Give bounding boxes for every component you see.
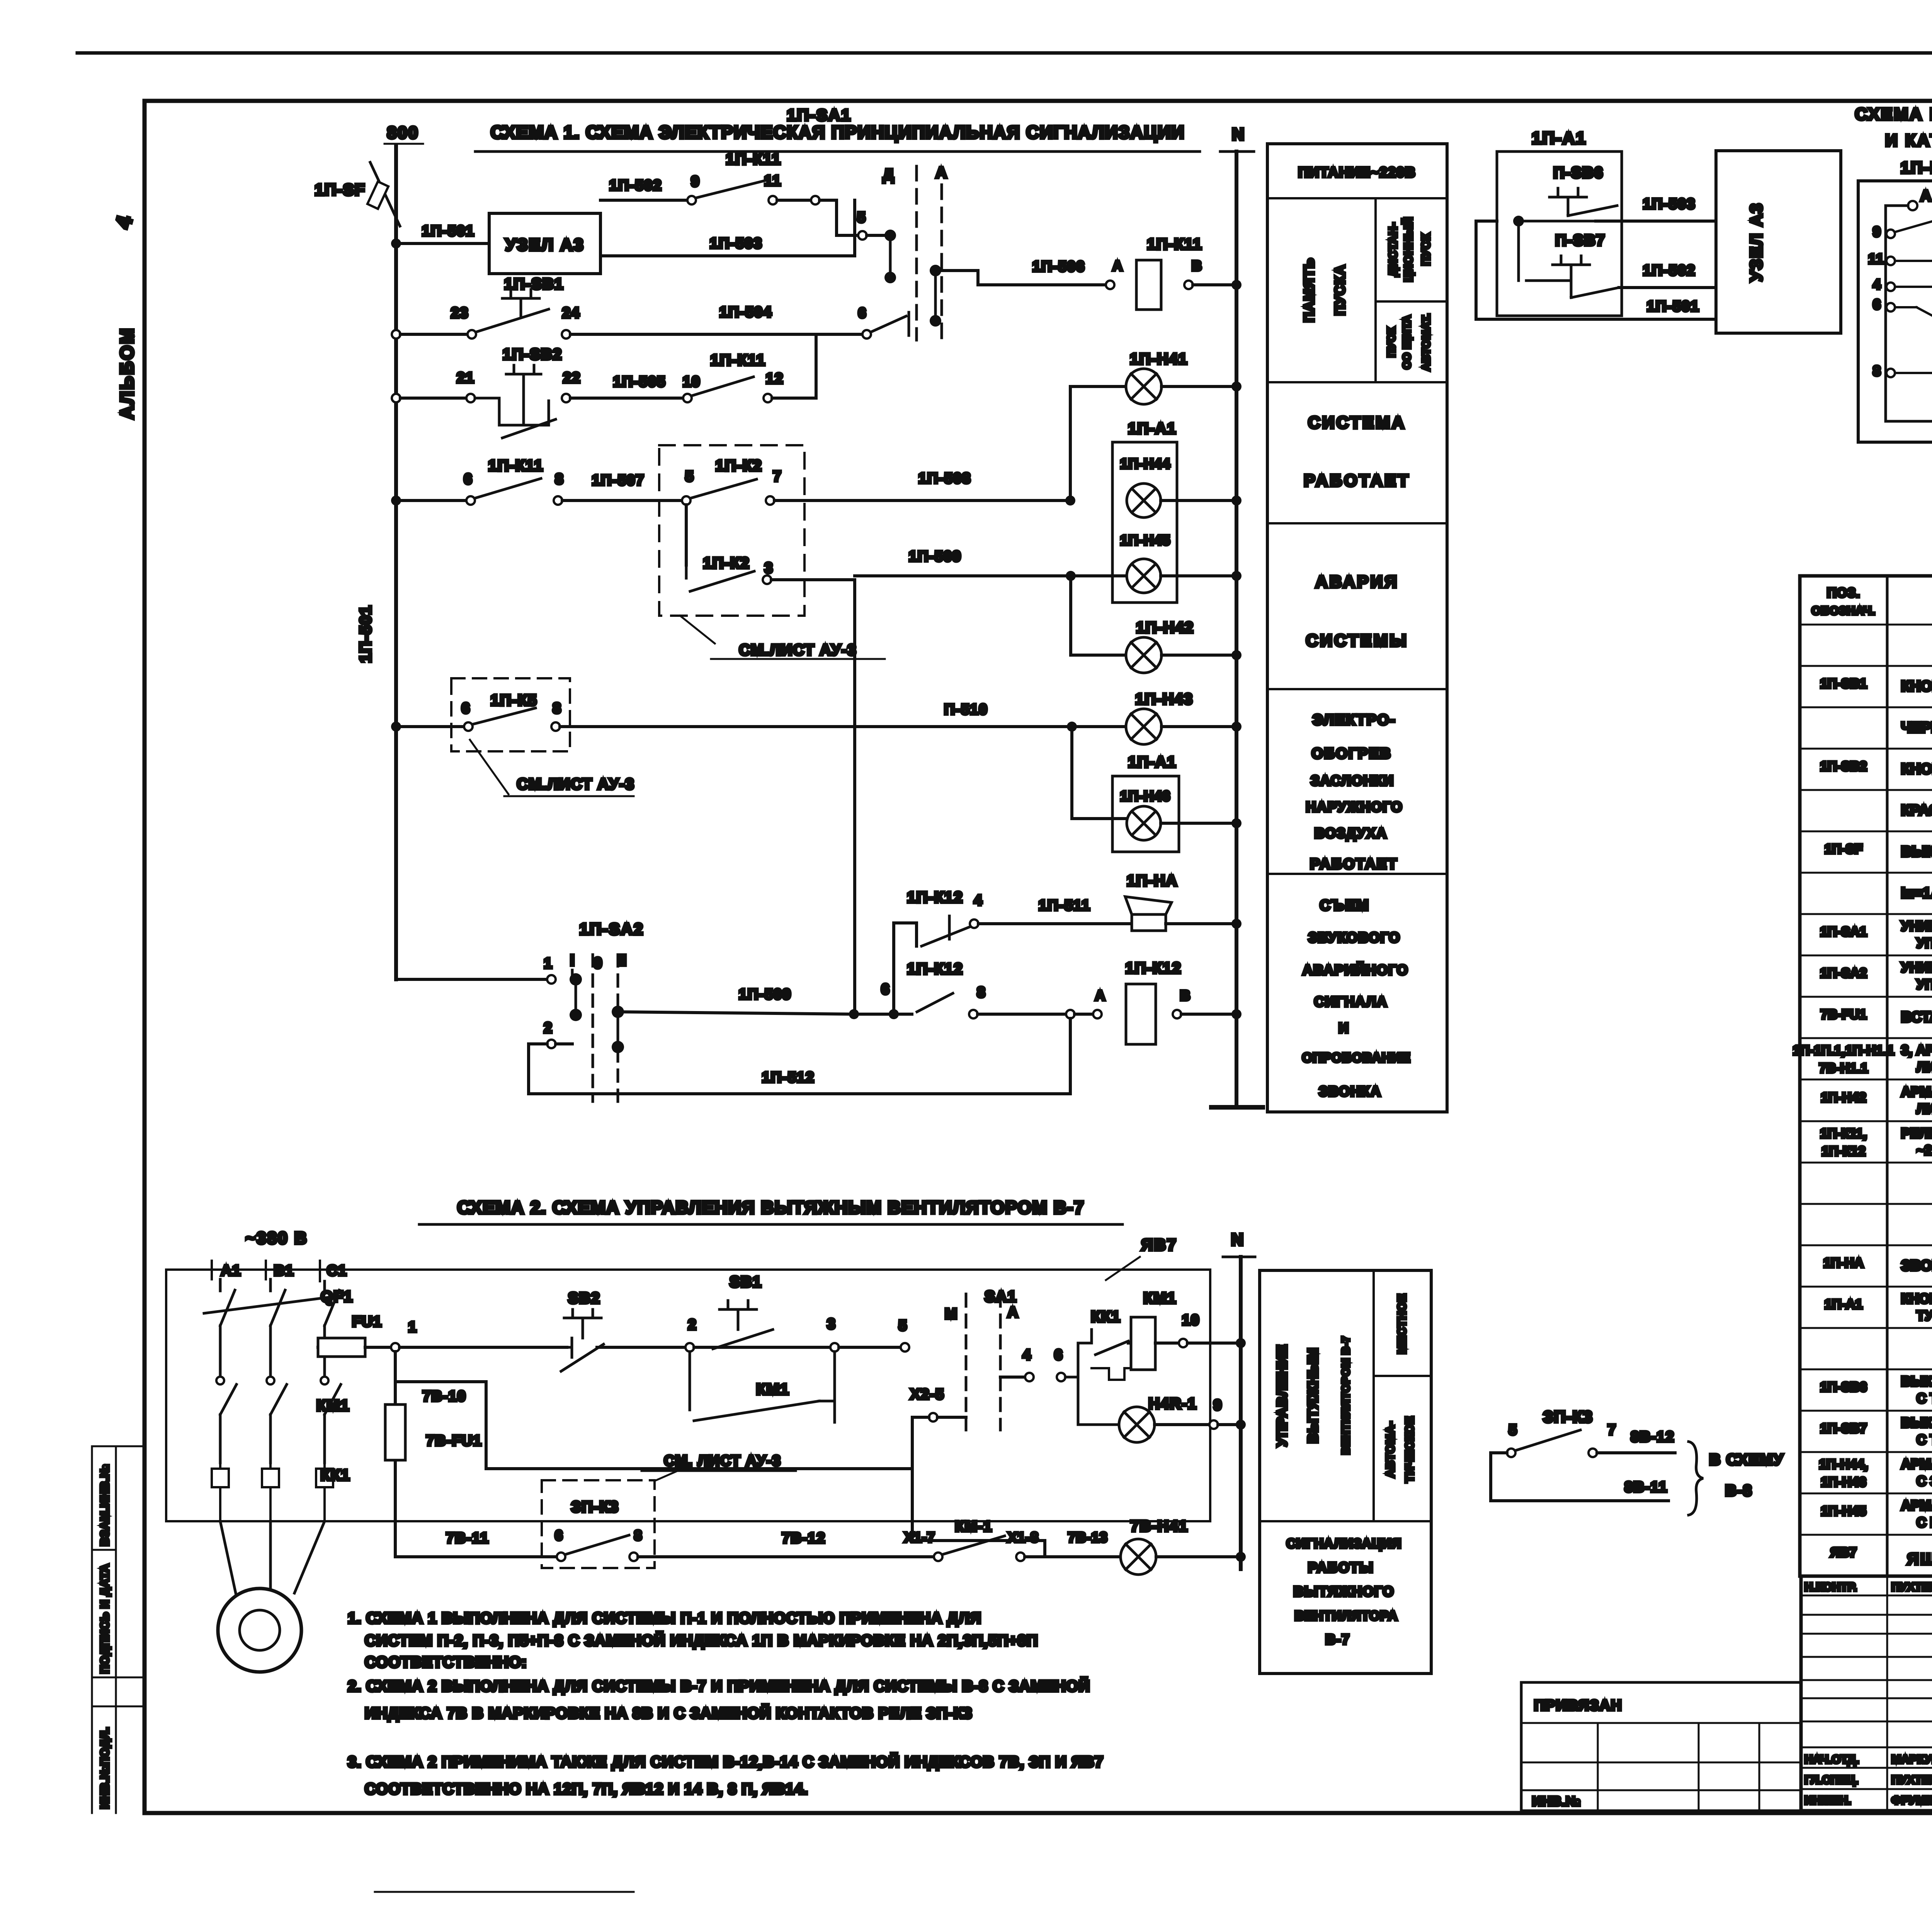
svg-text:УЗЕЛ А3: УЗЕЛ А3 [1747, 203, 1766, 282]
svg-text:ЗВОНКА: ЗВОНКА [1319, 1083, 1381, 1099]
svg-text:ВЫКЛЮЧАТЕЛЬ АВТОМАТИЧЕСКИЙ А63: ВЫКЛЮЧАТЕЛЬ АВТОМАТИЧЕСКИЙ А63-МУЗ [1901, 843, 1932, 860]
svg-text:7В-13: 7В-13 [1068, 1529, 1107, 1545]
svg-text:1П-505: 1П-505 [613, 374, 666, 390]
svg-text:10: 10 [1182, 1312, 1200, 1328]
svg-text:7В-Н1.1: 7В-Н1.1 [1819, 1061, 1868, 1076]
svg-text:ЭЛЕКТРО-: ЭЛЕКТРО- [1313, 712, 1396, 728]
svg-text:УП-5312 с 86 ТУ16-524: УП-5312 с 86 ТУ16-524.074-75 [1917, 936, 1932, 951]
wire 1P-501 to uzel A3 [391, 238, 401, 249]
svg-text:Iн=1А, ОТСЕЧКА Iотс.=2Iн. ТУ: Iн=1А, ОТСЕЧКА Iотс.=2Iн. ТУ16-522.110-7… [1901, 885, 1932, 901]
svg-text:ВСТАВКА ПЛАВКАЯ ВП25-1,1А А: ВСТАВКА ПЛАВКАЯ ВП25-1,1А АГО.481.304ТУ [1901, 1009, 1932, 1025]
svg-text:СИГНАЛА: СИГНАЛА [1314, 994, 1388, 1010]
svg-text:1. СХЕМА 1 ВЫПОЛНЕНА ДЛЯ СИС: 1. СХЕМА 1 ВЫПОЛНЕНА ДЛЯ СИСТЕМЫ П-1 И П… [348, 1610, 981, 1627]
svg-text:ЗВУКОВОГО: ЗВУКОВОГО [1308, 930, 1401, 945]
svg-text:А: А [1920, 187, 1932, 204]
relay contact 1P-K5 row with dashed box, wire P-510 [391, 722, 401, 732]
wire 1P-512 return loop [529, 1044, 1070, 1094]
svg-text:А: А [1112, 258, 1123, 274]
small stamp table privyazan [1521, 1682, 1801, 1811]
svg-text:6: 6 [555, 1527, 563, 1543]
svg-text:SВ1: SВ1 [730, 1273, 762, 1290]
svg-text:ПУСК: ПУСК [1420, 233, 1432, 266]
svg-text:1П-SВ1: 1П-SВ1 [504, 276, 564, 293]
svg-text:7В-Н41: 7В-Н41 [1130, 1518, 1188, 1535]
svg-text:1П-SВ1: 1П-SВ1 [1820, 676, 1867, 691]
svg-text:КНОПКА УПРАВЛЕНИЯ КЕ-0113 исп.: КНОПКА УПРАВЛЕНИЯ КЕ-0113 исп.1. ТОЛКАТЕ… [1901, 678, 1932, 695]
relay pinout box [1858, 181, 1932, 442]
svg-text:2. СХЕМА 2 ВЫПОЛНЕНА ДЛЯ СИСТЕ: 2. СХЕМА 2 ВЫПОЛНЕНА ДЛЯ СИСТЕМЫ В-7 И П… [348, 1677, 1090, 1695]
svg-text:1П-508: 1П-508 [918, 470, 971, 487]
svg-text:2: 2 [544, 1020, 553, 1036]
svg-text:4: 4 [1022, 1347, 1031, 1363]
relay contact 1P-K12 4 (NC) and horn 1P-NA [894, 923, 917, 1014]
svg-text:7В-12: 7В-12 [782, 1530, 826, 1546]
svg-text:ПУХТЕЛЬ: ПУХТЕЛЬ [1891, 1581, 1932, 1594]
svg-text:1П-Н45: 1П-Н45 [1120, 532, 1170, 548]
svg-text:СМ.ЛИСТ АУ-3: СМ.ЛИСТ АУ-3 [517, 776, 635, 793]
svg-text:ПУХТЕЛЬ: ПУХТЕЛЬ [1891, 1774, 1932, 1786]
svg-text:FU1: FU1 [352, 1314, 382, 1330]
svg-text:ТУ16-526.333-83 С СЛЕДУЮЩИМИ: ТУ16-526.333-83 С СЛЕДУЮЩИМИ [1917, 1308, 1932, 1323]
svg-text:И КАТУШЕК РЕЛЕ: И КАТУШЕК РЕЛЕ [1885, 131, 1932, 150]
svg-text:ЗП-К3: ЗП-К3 [571, 1498, 619, 1515]
svg-text:1П-К12: 1П-К12 [907, 960, 963, 977]
svg-text:ЗАСЛОНКИ: ЗАСЛОНКИ [1311, 773, 1394, 788]
svg-text:КНОПОЧНЫЙ ПОСТ УПРАВЛЕНИЯ ПКУ1: КНОПОЧНЫЙ ПОСТ УПРАВЛЕНИЯ ПКУ15-21.311-5… [1901, 1291, 1932, 1306]
annotation column schematic 1 [1267, 144, 1447, 1112]
svg-text:1П-SF: 1П-SF [315, 180, 365, 199]
ground bar at N bus bottom [1211, 1105, 1263, 1110]
pushbutton 1P-SB1 row, contacts 23-24 [392, 330, 400, 339]
svg-text:1П-SA1: 1П-SA1 [787, 106, 851, 124]
svg-text:7В-FU1: 7В-FU1 [1820, 1007, 1866, 1022]
svg-text:ВЫТЯЖНОГО: ВЫТЯЖНОГО [1293, 1583, 1394, 1599]
svg-text:КМ1: КМ1 [756, 1381, 789, 1398]
svg-text:~380 В: ~380 В [245, 1229, 308, 1248]
svg-text:И: И [1338, 1020, 1349, 1036]
svg-text:Д: Д [883, 166, 895, 183]
svg-text:2: 2 [688, 1317, 697, 1333]
svg-text:ЛИНЗА ЗЕЛЕНАЯ ТУ16-535.426-7: ЛИНЗА ЗЕЛЕНАЯ ТУ16-535.426-70 [1917, 1060, 1932, 1075]
svg-text:НАРУЖНОГО: НАРУЖНОГО [1306, 799, 1403, 815]
svg-text:8: 8 [553, 700, 561, 717]
svg-text:1П-1П.1,1П-Н1.1: 1П-1П.1,1П-Н1.1 [1793, 1043, 1894, 1058]
callout sm.list AU-3 for 3P-K3 [641, 1471, 796, 1480]
svg-text:АРМАТУРА СВЕТОСИГНАЛЬНАЯ СЕРИИ: АРМАТУРА СВЕТОСИГНАЛЬНАЯ СЕРИИ АС13 [1901, 1457, 1932, 1472]
box uzel A3 (schematic) [489, 213, 600, 274]
svg-text:ТИЧЕСКОЕ: ТИЧЕСКОЕ [1403, 1416, 1416, 1483]
svg-text:5: 5 [898, 1318, 907, 1334]
svg-text:СМ.ЛИСТ АУ-3: СМ.ЛИСТ АУ-3 [739, 642, 857, 659]
svg-text:СИСТЕМ П-2, П-3, П5÷П-8 С ЗАМЕ: СИСТЕМ П-2, П-3, П5÷П-8 С ЗАМЕНОЙ ИНДЕКС… [365, 1631, 1038, 1649]
callout sm.list AU-3 for 1P-K2 [680, 616, 885, 659]
svg-text:1П-512: 1П-512 [762, 1069, 815, 1086]
parts list table [1800, 576, 1932, 1576]
svg-text:АЛЬБОМ: АЛЬБОМ [117, 327, 138, 419]
control tap with fuse FU1 [320, 1342, 330, 1352]
svg-text:ЯВ7: ЯВ7 [1830, 1545, 1857, 1560]
svg-text:ЗП-К3: ЗП-К3 [1543, 1408, 1593, 1426]
svg-text:I: I [570, 952, 575, 969]
svg-text:СООТВЕТСТВЕННО НА 12П, 7П, Я: СООТВЕТСТВЕННО НА 12П, 7П, ЯВ12 И 14 В, … [365, 1781, 808, 1798]
svg-text:8: 8 [1873, 363, 1881, 379]
motor [220, 1521, 325, 1593]
pushbutton 1P-SB2 row, contacts 21-22, wire 1P-505, contact 1P-K11 10-12 [392, 394, 400, 402]
wire 1P-506 and relay coil 1P-K11 [935, 271, 1106, 285]
svg-text:ЯВ7: ЯВ7 [1141, 1236, 1177, 1254]
svg-text:ВЫКЛЮЧАТЕЛЬ КНОПОЧНЫЙ ТИПА КЕ: ВЫКЛЮЧАТЕЛЬ КНОПОЧНЫЙ ТИПА КЕ-011 [1901, 1374, 1932, 1389]
svg-text:ВЕНТИЛЯТОРОМ В-7: ВЕНТИЛЯТОРОМ В-7 [1340, 1336, 1352, 1455]
svg-text:1П-А1: 1П-А1 [1825, 1297, 1862, 1312]
svg-text:~220 В ТУ16-523.331-78: ~220 В ТУ16-523.331-78 [1917, 1143, 1932, 1158]
svg-text:1П-К11: 1П-К11 [726, 151, 781, 168]
svg-text:УНИВЕРСАЛЬНЫЙ ПЕРЕКЛЮЧАТЕЛЬ: УНИВЕРСАЛЬНЫЙ ПЕРЕКЛЮЧАТЕЛЬ [1901, 960, 1932, 975]
svg-text:N: N [1232, 125, 1245, 144]
svg-text:ВЫКЛЮЧАТЕЛЬ КНОПОЧНЫЙ ТИПА КЕ: ВЫКЛЮЧАТЕЛЬ КНОПОЧНЫЙ ТИПА КЕ-011 [1901, 1415, 1932, 1430]
svg-text:6: 6 [881, 981, 890, 998]
svg-text:ИНВ.№ПОДЛ.: ИНВ.№ПОДЛ. [99, 1727, 111, 1809]
svg-text:1П-К5: 1П-К5 [491, 692, 537, 709]
svg-text:21: 21 [457, 370, 474, 386]
box YaV7 (control cabinet) [166, 1270, 1210, 1521]
svg-text:ЧЕРНОГО ЦВЕТА, НАДПИСЬ-„ПУСК”: ЧЕРНОГО ЦВЕТА, НАДПИСЬ-„ПУСК” ТУ16-642.0… [1901, 720, 1932, 736]
svg-text:1П-К11, 1П-К12: 1П-К11, 1П-К12 [1901, 158, 1932, 177]
svg-text:22: 22 [563, 370, 581, 386]
svg-text:С КРАСНЫМ СВЕТОФИЛЬТРОМ ТУ16-5: С КРАСНЫМ СВЕТОФИЛЬТРОМ ТУ16-535.426-70 [1917, 1515, 1932, 1530]
svg-text:1П-Н42: 1П-Н42 [1821, 1090, 1866, 1105]
contacts 4 and 6, thermal contact KK1, coil KM1 [1000, 1376, 1025, 1379]
svg-text:12: 12 [766, 371, 784, 387]
svg-text:ПОДПИСЬ И ДАТА: ПОДПИСЬ И ДАТА [99, 1564, 111, 1674]
svg-text:9: 9 [1213, 1397, 1222, 1413]
svg-text:НАЧ.ОТД.: НАЧ.ОТД. [1804, 1753, 1859, 1766]
svg-text:ПУСКА: ПУСКА [1332, 264, 1348, 315]
svg-text:7: 7 [1607, 1422, 1616, 1438]
svg-text:1П-501: 1П-501 [1647, 298, 1700, 315]
svg-text:Х1-8: Х1-8 [1008, 1529, 1039, 1545]
svg-text:1: 1 [408, 1319, 417, 1335]
svg-text:11: 11 [764, 173, 781, 189]
svg-text:ОПРОБОВАНИЕ: ОПРОБОВАНИЕ [1302, 1050, 1411, 1065]
riser to 1P-512 [1069, 1018, 1072, 1094]
svg-text:А: А [936, 164, 948, 181]
svg-text:1П-506: 1П-506 [1032, 259, 1085, 275]
svg-text:1П-507: 1П-507 [592, 472, 645, 489]
svg-text:ПУСК: ПУСК [1385, 327, 1397, 358]
svg-text:1П-509: 1П-509 [909, 548, 962, 565]
svg-text:МЕСТНОЕ: МЕСТНОЕ [1396, 1294, 1408, 1354]
svg-text:1П-Н44: 1П-Н44 [1120, 456, 1170, 472]
relay contact 1P-K11 6-8 row, wire 1P-507 [391, 495, 401, 506]
svg-text:Н4R-1: Н4R-1 [1148, 1395, 1197, 1412]
svg-text:В: В [1180, 987, 1191, 1003]
svg-text:6: 6 [464, 471, 473, 487]
svg-text:Х1-7: Х1-7 [904, 1529, 935, 1545]
branch 7V-10 with fuse 7V-FU1 [394, 1352, 397, 1557]
svg-text:1П-SВ6: 1П-SВ6 [1820, 1380, 1867, 1394]
svg-text:СИСТЕМА: СИСТЕМА [1308, 413, 1406, 432]
svg-text:СМ. ЛИСТ АУ-3: СМ. ЛИСТ АУ-3 [664, 1453, 781, 1469]
svg-text:1П-К2: 1П-К2 [716, 457, 762, 474]
svg-text:УП-5311 А 225 ТУ16-524.: УП-5311 А 225 ТУ16-524.074-75 [1917, 977, 1932, 992]
svg-text:3, АРМАТУРА СВЕТОСИГНАЛЬНАЯ А: 3, АРМАТУРА СВЕТОСИГНАЛЬНАЯ АС-220 [1901, 1043, 1932, 1058]
svg-text:АРМАТУРА СВЕТОСИГНАЛЬНАЯ АС-2: АРМАТУРА СВЕТОСИГНАЛЬНАЯ АС-220. [1901, 1084, 1932, 1100]
svg-text:СХЕМА 1. СХЕМА ЭЛЕКТРИЧЕСКАЯ: СХЕМА 1. СХЕМА ЭЛЕКТРИЧЕСКАЯ ПРИНЦИПИАЛЬ… [491, 122, 1185, 142]
svg-text:1П-502: 1П-502 [609, 177, 662, 194]
svg-text:8В-11: 8В-11 [1624, 1479, 1667, 1495]
svg-text:1: 1 [544, 955, 553, 972]
svg-text:1П-К11: 1П-К11 [1147, 236, 1202, 253]
svg-text:800: 800 [387, 123, 419, 142]
svg-text:Н.КОНТР.: Н.КОНТР. [1804, 1581, 1857, 1594]
svg-text:ВЕНТИЛЯТОРА: ВЕНТИЛЯТОРА [1295, 1609, 1398, 1623]
svg-text:1П-502: 1П-502 [1643, 262, 1696, 279]
svg-text:СХЕМА ВЫВОДОВ КОНТАКТОВ: СХЕМА ВЫВОДОВ КОНТАКТОВ [1855, 105, 1932, 124]
svg-text:1П-SВ7: 1П-SВ7 [1820, 1421, 1867, 1436]
wires 1P-503 1P-502 1P-501 to uzel A3 [1596, 220, 1716, 223]
svg-text:1П-503: 1П-503 [1643, 196, 1696, 212]
svg-text:0: 0 [594, 955, 603, 972]
svg-text:ВЗАМ.ИНВ.№: ВЗАМ.ИНВ.№ [99, 1464, 111, 1546]
svg-text:В: В [1192, 258, 1202, 274]
svg-text:5: 5 [857, 209, 866, 226]
svg-text:4: 4 [974, 892, 983, 909]
svg-text:8В-12: 8В-12 [1631, 1429, 1675, 1445]
svg-text:6: 6 [1054, 1347, 1063, 1363]
svg-text:СИСТЕМЫ: СИСТЕМЫ [1306, 631, 1408, 650]
svg-text:ИНДЕКСА 7В В МАРКИРОВКЕ НА: ИНДЕКСА 7В В МАРКИРОВКЕ НА 8В И С ЗАМЕНО… [365, 1704, 972, 1722]
svg-text:1П-511: 1П-511 [1039, 897, 1090, 914]
svg-text:С ТОЛКАТЕЛЕМ ЧЕРНОГО ЦВЕТА, ис: С ТОЛКАТЕЛЕМ ЧЕРНОГО ЦВЕТА, исп.1 [1917, 1391, 1932, 1406]
svg-text:1П-К11: 1П-К11 [710, 352, 765, 369]
svg-text:МАРКУЦКИЙ: МАРКУЦКИЙ [1891, 1753, 1932, 1766]
svg-text:ЛИНЗА КРАСНАЯ ТУ16-535.426-7: ЛИНЗА КРАСНАЯ ТУ16-535.426-70 [1917, 1102, 1932, 1117]
wire 1P-503 [600, 200, 855, 256]
svg-text:КРАСНОГО ЦВЕТА, НАДПИСЬ „СТОП”: КРАСНОГО ЦВЕТА, НАДПИСЬ „СТОП”. ТУ16-642… [1901, 802, 1932, 819]
svg-text:1П-Н42: 1П-Н42 [1136, 619, 1194, 636]
svg-text:7: 7 [773, 468, 782, 485]
svg-text:СО ЩИТА: СО ЩИТА [1401, 315, 1413, 369]
svg-text:8: 8 [634, 1527, 643, 1543]
svg-text:5: 5 [1509, 1422, 1517, 1438]
svg-text:ЯЩИК УПРАВЛЕНИЯ: ЯЩИК УПРАВЛЕНИЯ [1907, 1550, 1932, 1568]
callout sm.list AU-3 for 1P-K5 [470, 740, 634, 796]
svg-text:ДИСТАН-: ДИСТАН- [1387, 222, 1400, 277]
svg-text:АВТОМА-: АВТОМА- [1384, 1421, 1397, 1478]
svg-text:ПРИВЯЗАН: ПРИВЯЗАН [1534, 1697, 1622, 1714]
svg-text:СООТВЕТСТВЕННО:: СООТВЕТСТВЕННО: [365, 1654, 527, 1671]
svg-text:1П-А1: 1П-А1 [1532, 129, 1587, 148]
svg-text:1П-501: 1П-501 [356, 605, 374, 663]
svg-text:АВАРИЯ: АВАРИЯ [1315, 572, 1399, 591]
svg-text:П-510: П-510 [944, 701, 988, 718]
svg-text:1П-SА2: 1П-SА2 [1820, 966, 1867, 981]
svg-text:6: 6 [858, 305, 867, 321]
svg-text:8: 8 [555, 471, 564, 487]
svg-text:П-SВ6: П-SВ6 [1553, 164, 1604, 181]
svg-text:ЗВОНОК ЭЛЕКТРИЧЕСКИЙ ЗВП-220: ЗВОНОК ЭЛЕКТРИЧЕСКИЙ ЗВП-220 ~220В [1901, 1256, 1932, 1274]
paper top edge line [77, 51, 1932, 55]
svg-text:7В-10: 7В-10 [422, 1388, 466, 1405]
main title block [1801, 1576, 1932, 1811]
svg-text:КК1: КК1 [1091, 1308, 1121, 1325]
svg-text:4: 4 [1873, 276, 1881, 292]
svg-text:1П-SF: 1П-SF [1825, 842, 1862, 856]
svg-text:1П-К11: 1П-К11 [488, 457, 543, 474]
annotation column schematic 2 [1260, 1270, 1431, 1674]
svg-text:КМ1: КМ1 [1143, 1290, 1177, 1307]
svg-text:РАБОТАЕТ: РАБОТАЕТ [1304, 471, 1410, 490]
svg-text:СХЕМА 2. СХЕМА УПРАВЛЕНИЯ ВЫТ: СХЕМА 2. СХЕМА УПРАВЛЕНИЯ ВЫТЯЖНЫМ ВЕНТИ… [457, 1197, 1084, 1217]
svg-text:1П-Н45: 1П-Н45 [1821, 1504, 1866, 1519]
svg-text:1П-А1: 1П-А1 [1128, 754, 1176, 771]
svg-text:1П-К12: 1П-К12 [1125, 960, 1181, 977]
svg-text:УПРАВЛЕНИЕ: УПРАВЛЕНИЕ [1274, 1344, 1290, 1446]
svg-text:10: 10 [683, 374, 701, 390]
svg-text:1П-SB2: 1П-SB2 [503, 346, 562, 363]
svg-text:3. СХЕМА 2 ПРИМЕНИМА ТАКЖЕ Д: 3. СХЕМА 2 ПРИМЕНИМА ТАКЖЕ ДЛЯ СИСТЕМ В-… [348, 1753, 1104, 1771]
svg-text:ФРУМКЕР: ФРУМКЕР [1891, 1794, 1932, 1807]
svg-text:1П-Н46: 1П-Н46 [1120, 788, 1170, 804]
svg-text:КМ-1: КМ-1 [955, 1519, 993, 1535]
svg-text:М: М [945, 1306, 958, 1322]
svg-text:5: 5 [685, 468, 694, 485]
svg-text:1П-К12: 1П-К12 [907, 889, 963, 906]
svg-text:РАБОТЫ: РАБОТЫ [1308, 1559, 1374, 1575]
svg-text:РАБОТАЕТ: РАБОТАЕТ [1310, 856, 1398, 872]
svg-text:1П-К11,: 1П-К11, [1820, 1126, 1867, 1141]
svg-text:11: 11 [1868, 251, 1884, 267]
svg-text:ПОЗ.: ПОЗ. [1827, 586, 1860, 600]
svg-text:1П-НА: 1П-НА [1127, 872, 1178, 889]
brace [1689, 1442, 1703, 1515]
svg-text:1П-504: 1П-504 [719, 304, 772, 320]
svg-text:23: 23 [451, 305, 469, 321]
svg-text:1П-SВ2: 1П-SВ2 [1820, 759, 1867, 774]
svg-text:24: 24 [562, 305, 580, 321]
svg-text:1П-Н46: 1П-Н46 [1821, 1475, 1866, 1490]
svg-text:ИНЖЕН.: ИНЖЕН. [1804, 1794, 1851, 1807]
box uzel A3 (node) [1716, 151, 1841, 333]
svg-text:1П-SA2: 1П-SA2 [579, 920, 644, 938]
svg-text:6: 6 [1873, 296, 1881, 312]
svg-text:6: 6 [461, 700, 470, 717]
lamp H4R-1 [1078, 1377, 1119, 1425]
left margin stamp strip [92, 1446, 145, 1706]
svg-text:ПАМЯТЬ: ПАМЯТЬ [1301, 257, 1317, 322]
svg-text:1П-К12: 1П-К12 [1821, 1144, 1865, 1159]
svg-text:1П-503: 1П-503 [710, 235, 763, 252]
svg-text:А: А [1095, 987, 1106, 1003]
svg-text:1П-SА1: 1П-SА1 [1820, 924, 1867, 939]
svg-text:3: 3 [764, 560, 773, 576]
svg-text:ВЫТЯЖНЫМ: ВЫТЯЖНЫМ [1305, 1347, 1321, 1443]
svg-text:N: N [1231, 1230, 1244, 1249]
svg-text:SВ2: SВ2 [568, 1290, 600, 1307]
svg-text:УЗЕЛ А3: УЗЕЛ А3 [505, 235, 585, 254]
svg-text:А: А [1007, 1304, 1019, 1321]
svg-text:ПИТАНИЕ~220В: ПИТАНИЕ~220В [1298, 164, 1416, 180]
svg-text:1П-Н44,: 1П-Н44, [1819, 1457, 1868, 1472]
svg-text:1П-К2: 1П-К2 [703, 555, 750, 572]
lamp 1P-H41 [1070, 386, 1126, 501]
svg-text:9: 9 [1873, 224, 1881, 240]
svg-text:7В-11: 7В-11 [446, 1530, 489, 1546]
svg-text:ГЛ.СПЕЦ.: ГЛ.СПЕЦ. [1804, 1774, 1858, 1786]
svg-text:ИНВ.№: ИНВ.№ [1532, 1794, 1581, 1809]
svg-text:УНИВЕРСАЛЬНЫЙ ПЕРЕКЛЮЧАТЕЛЬ: УНИВЕРСАЛЬНЫЙ ПЕРЕКЛЮЧАТЕЛЬ [1901, 918, 1932, 934]
svg-text:ВОЗДУХА: ВОЗДУХА [1315, 825, 1387, 841]
svg-text:АВАРИЙНОГО: АВАРИЙНОГО [1303, 962, 1408, 978]
svg-text:П-SВ7: П-SВ7 [1555, 232, 1605, 249]
svg-text:СЪЕМ: СЪЕМ [1320, 897, 1370, 914]
wire 1P-509 upper row to lamps [855, 574, 1126, 577]
svg-text:1П-А1: 1П-А1 [1128, 420, 1176, 437]
svg-text:ОБОГРЕВ: ОБОГРЕВ [1311, 746, 1391, 762]
svg-text:1П-Н43: 1П-Н43 [1135, 691, 1193, 708]
svg-text:КНОПКА УПРАВЛЕНИЯ КЕ-0113 исп.: КНОПКА УПРАВЛЕНИЯ КЕ-0113 исп.3. ТОЛКАТЕ… [1901, 761, 1932, 777]
svg-text:7В-FU1: 7В-FU1 [426, 1433, 482, 1449]
svg-text:ОБОЗНАЧ.: ОБОЗНАЧ. [1811, 604, 1876, 617]
svg-text:СИГНАЛИЗАЦИЯ: СИГНАЛИЗАЦИЯ [1286, 1536, 1401, 1551]
svg-text:1П-501: 1П-501 [422, 223, 475, 239]
svg-text:В-8: В-8 [1725, 1482, 1752, 1499]
svg-text:1П-НА: 1П-НА [1823, 1256, 1864, 1270]
svg-text:С ЗЕЛЕНЫМ СВЕТОФИЛЬТРОМ. ТУ16-: С ЗЕЛЕНЫМ СВЕТОФИЛЬТРОМ. ТУ16-535.426-70 [1917, 1474, 1932, 1489]
svg-text:9: 9 [691, 174, 700, 190]
svg-text:АВТОМАТ.: АВТОМАТ. [1420, 313, 1432, 371]
bus wire 1P-501 (left vertical) [394, 146, 398, 979]
svg-text:ЦИОННЫЙ: ЦИОННЫЙ [1402, 217, 1415, 282]
svg-text:РЕЛЕ ПРОМЕЖУТОЧНОЕ РПУ-2М-0622: РЕЛЕ ПРОМЕЖУТОЧНОЕ РПУ-2М-0622УЗА [1901, 1126, 1932, 1141]
svg-text:1П-Н41: 1П-Н41 [1130, 351, 1188, 368]
wire 1P-502 with contact 1P-K11 9-11 [600, 199, 687, 202]
svg-text:С ТОЛКАТЕЛЕМ КРАСНОГО ЦВЕТА,: С ТОЛКАТЕЛЕМ КРАСНОГО ЦВЕТА, исп.3 [1917, 1432, 1932, 1447]
svg-text:В СХЕМУ: В СХЕМУ [1709, 1451, 1784, 1468]
svg-text:1П-509: 1П-509 [739, 986, 792, 1003]
svg-text:8: 8 [977, 984, 986, 1001]
wire 1P-509 lower row [618, 1012, 912, 1014]
svg-text:3: 3 [827, 1316, 836, 1332]
svg-text:В-7: В-7 [1325, 1631, 1350, 1647]
svg-text:Х2-5: Х2-5 [910, 1386, 944, 1403]
svg-text:АРМАТУРА СВЕТОСИГНАЛЬНАЯ СЕРИИ: АРМАТУРА СВЕТОСИГНАЛЬНАЯ СЕРИИ АСТК [1901, 1498, 1932, 1513]
